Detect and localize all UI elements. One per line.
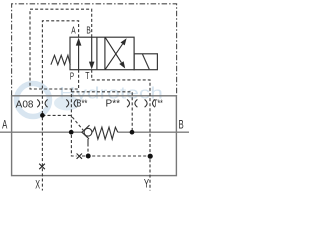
wire: valve B port loop up-left-down: [30, 9, 92, 89]
wire: branch to P** orifice channel: [71, 92, 132, 131]
svg-text:B**: B**: [76, 99, 87, 110]
plug X on pilot port channel: [39, 164, 45, 170]
node: B channel on main line: [69, 130, 74, 135]
crossed arrow 2 (down-right) in right square: [105, 38, 121, 63]
valve U1 spring (left): [51, 55, 70, 64]
wire: pilot line from node to check valve: [42, 115, 83, 130]
svg-text:A: A: [71, 25, 76, 36]
svg-text:T: T: [85, 71, 89, 82]
A-B main flow line (right segment): [118, 131, 189, 133]
svg-text:A08: A08: [16, 99, 34, 110]
svg-text:P**: P**: [106, 99, 121, 110]
check valve V1 ball: [84, 128, 92, 136]
orifice B arcs: [66, 99, 76, 107]
wire: X channel below pilot node: [41, 117, 43, 190]
svg-text:P: P: [70, 72, 74, 83]
crossed arrow 1 (up-right) in right square: [105, 44, 122, 69]
svg-text:T**: T**: [153, 99, 163, 110]
svg-text:B: B: [86, 25, 91, 36]
solenoid Y1 box: [134, 54, 157, 70]
orifice T arcs: [145, 99, 155, 107]
sandwich plate body: [12, 96, 177, 176]
solenoid Y1 diagonal: [142, 54, 149, 69]
wire: bottom drain line to Y node: [82, 155, 148, 157]
check valve V1 spring: [92, 127, 117, 139]
arrow P-to-A in left square: [78, 42, 80, 70]
svg-text:X: X: [35, 178, 40, 192]
node: Y junction: [148, 154, 153, 159]
wire: valve T port route right-down to T**/Y channel: [92, 70, 150, 191]
node: drain junction: [86, 154, 91, 159]
wire: check valve drain down to drain line: [87, 139, 89, 144]
arrow B-to-T in left square: [91, 37, 93, 62]
plug on drain line: [77, 154, 82, 159]
wire: B** orifice channel down to node and bottom corner: [71, 89, 76, 156]
check valve V1 seat: [82, 125, 90, 139]
node: P channel on main line: [130, 130, 135, 135]
orifice A08 arcs: [37, 99, 47, 107]
svg-text:B: B: [179, 117, 184, 131]
watermark logo circle: [17, 84, 50, 117]
wire: valve P port drop to loop: [78, 70, 80, 89]
watermark blob: [54, 96, 80, 111]
frame: chain-dot assembly border: [12, 4, 177, 96]
valve U1 body: two position squares with middle stripe: [70, 37, 134, 69]
A-B main flow line (left segment): [0, 131, 82, 133]
wire: valve A port route up-left-down to A08 orifice channel: [42, 21, 78, 114]
node: pilot branch: [40, 113, 45, 118]
svg-text:Y: Y: [144, 177, 149, 191]
svg-text:A: A: [2, 118, 7, 132]
orifice P arcs: [127, 99, 137, 107]
